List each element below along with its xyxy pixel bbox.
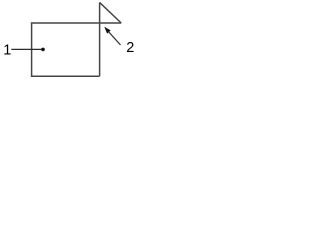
svg-text:2: 2 <box>126 40 134 56</box>
svg-text:1: 1 <box>3 42 11 58</box>
leader dot <box>41 48 45 52</box>
top edge wire (rectangle top + flap bottom) <box>31 22 121 24</box>
corner flap hypotenuse 2 <box>100 2 122 23</box>
arrow shaft 2 <box>108 31 121 46</box>
sheet body rectangle 1 (left and bottom edges) <box>32 23 100 76</box>
arrowhead 2 <box>104 27 110 34</box>
right edge wire (rectangle right + flap left) <box>99 2 101 76</box>
leader line 1 <box>11 48 42 50</box>
